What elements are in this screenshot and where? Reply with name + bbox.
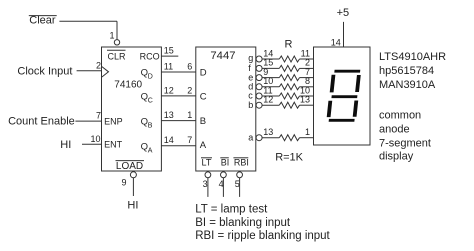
svg-text:5: 5 [235, 179, 240, 189]
svg-text:15: 15 [164, 46, 174, 56]
wire U1 Q output to U2 input at y=145.7 [161, 145, 195, 147]
wire RCO pin 15 stub [161, 55, 178, 57]
svg-text:LOAD: LOAD [116, 161, 143, 172]
svg-text:D: D [200, 67, 207, 78]
svg-text:11: 11 [164, 62, 173, 72]
svg-text:A: A [200, 140, 207, 151]
wire HI to U1 pin 10 [82, 143, 102, 145]
svg-text:HI: HI [127, 200, 138, 212]
svg-text:12: 12 [263, 95, 273, 105]
inversion bubble on U2 output pin 9 [256, 75, 262, 81]
svg-text:2: 2 [96, 60, 101, 70]
svg-text:1: 1 [109, 31, 114, 41]
wire U1 Q output to U2 input at y=120.6 [161, 120, 195, 122]
inversion bubble on U2 pin 4 [221, 172, 227, 178]
resistor R7 segment 13-to-1 [262, 137, 279, 139]
svg-text:ENP: ENP [104, 116, 123, 126]
svg-text:RBI = ripple blanking input: RBI = ripple blanking input [195, 230, 330, 242]
svg-text:RBI: RBI [234, 157, 249, 167]
svg-text:B: B [200, 116, 206, 127]
svg-text:R: R [285, 39, 293, 51]
resistor R3 segment 9-to-7 [262, 77, 279, 79]
svg-text:LT: LT [202, 157, 212, 167]
wire U2 pin 5 stub [239, 178, 241, 197]
7-segment digit 8 in DS1 [326, 70, 361, 122]
svg-text:C: C [200, 92, 207, 103]
inversion bubble on U1 LOAD pin 9 [130, 172, 136, 178]
wire U2 pin 3 stub [207, 178, 209, 197]
svg-text:74160: 74160 [114, 80, 142, 91]
inversion bubble on U2 output pin 14 [256, 56, 262, 62]
7-segment display DS1 body [314, 47, 371, 145]
svg-text:9: 9 [121, 178, 126, 188]
svg-text:Clear: Clear [29, 15, 56, 27]
svg-text:14: 14 [331, 37, 341, 47]
svg-text:14: 14 [164, 135, 174, 145]
inversion bubble on U1 CLR pin 1 [114, 40, 119, 45]
svg-text:13: 13 [300, 95, 310, 105]
svg-text:CLR: CLR [108, 52, 127, 62]
svg-text:1: 1 [305, 127, 310, 137]
svg-text:LTS4910AHR: LTS4910AHR [379, 51, 446, 63]
svg-text:+5: +5 [337, 7, 350, 19]
inversion bubble on U2 pin 5 [237, 172, 243, 178]
wire Clear to U1 pin 1 [59, 20, 117, 22]
wire Clock Input to U1 pin 2 [77, 70, 102, 72]
svg-text:D: D [148, 74, 153, 81]
svg-text:ENT: ENT [104, 140, 123, 150]
svg-text:7447: 7447 [210, 50, 235, 62]
svg-text:A: A [148, 147, 153, 154]
svg-text:hp5615784: hp5615784 [379, 65, 434, 77]
resistor R2 segment 15-to-2 [262, 67, 279, 69]
wire U2 pin 4 stub [222, 178, 224, 197]
svg-text:4: 4 [219, 179, 224, 189]
inversion bubble on U2 output pin 15 [256, 65, 262, 71]
inversion bubble on U2 output pin 13 [256, 135, 262, 141]
svg-text:12: 12 [164, 85, 174, 95]
svg-text:BI: BI [221, 157, 230, 167]
IC U1 74160 body [102, 47, 162, 171]
clock edge-trigger triangle on U1 [102, 67, 109, 77]
wire +5 to display pin 14 [343, 22, 345, 47]
wire U1 pin 9 to HI [132, 178, 134, 196]
resistor R5 segment 11-to-10 [262, 95, 279, 97]
svg-text:MAN3910A: MAN3910A [379, 79, 436, 91]
svg-text:7: 7 [96, 111, 101, 121]
svg-text:B: B [148, 122, 153, 129]
svg-text:LT = lamp test: LT = lamp test [195, 204, 268, 216]
svg-text:a: a [248, 132, 253, 142]
wire U1 Q output to U2 input at y=72.0 [161, 71, 195, 73]
svg-text:HI: HI [60, 139, 71, 151]
svg-text:display: display [379, 150, 414, 162]
svg-text:R=1K: R=1K [275, 151, 303, 163]
svg-text:b: b [248, 100, 253, 110]
svg-text:1: 1 [187, 110, 192, 120]
svg-text:7: 7 [187, 135, 192, 145]
inversion bubble on U2 output pin 12 [256, 102, 262, 108]
svg-text:g: g [248, 53, 253, 63]
svg-text:10: 10 [90, 134, 100, 144]
svg-text:2: 2 [187, 85, 192, 95]
resistor R1 segment 14-to-11 [262, 58, 279, 60]
wire U1 Q output to U2 input at y=95.9 [161, 95, 195, 97]
inversion bubble on U2 output pin 11 [256, 93, 262, 99]
svg-text:6: 6 [187, 62, 192, 72]
svg-text:anode: anode [379, 124, 410, 136]
svg-text:RCO: RCO [140, 51, 160, 61]
resistor R6 segment 12-to-13 [262, 104, 279, 106]
svg-text:13: 13 [164, 110, 174, 120]
svg-text:Clock Input: Clock Input [17, 65, 72, 77]
svg-text:BI = blanking input: BI = blanking input [195, 217, 291, 229]
IC U2 7447 body [196, 47, 256, 171]
wire Count Enable to U1 pin 7 [75, 120, 101, 122]
inversion bubble on U2 pin 3 [205, 172, 211, 178]
inversion bubble on U2 output pin 10 [256, 84, 262, 90]
resistor R4 segment 10-to-8 [262, 86, 279, 88]
svg-text:13: 13 [263, 127, 273, 137]
svg-text:common: common [379, 110, 421, 122]
svg-text:3: 3 [203, 179, 208, 189]
svg-text:Count Enable: Count Enable [8, 116, 75, 128]
svg-text:C: C [148, 98, 153, 105]
svg-text:7-segment: 7-segment [379, 137, 431, 149]
